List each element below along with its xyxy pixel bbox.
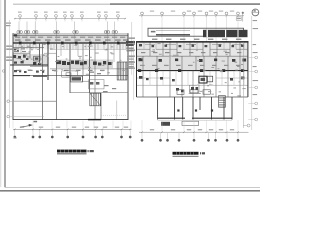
right plan: third band verticals	[142, 71, 144, 97]
right plan: window sill marks below top wall	[145, 43, 155, 45]
right plan: stair (rungs) right-centre	[219, 96, 226, 108]
right plan: first band interior verticals	[149, 43, 151, 57]
texture underlay left plan text band	[13, 36, 128, 43]
left plan: left row-marker bubble A	[7, 100, 10, 103]
left plan: room boxes y71-77	[62, 71, 78, 77]
right plan: dimension figures top	[150, 11, 154, 12]
right plan: bottom dimension line	[139, 131, 249, 133]
right plan: extension lines to bottom dimension	[141, 120, 143, 131]
right plan: mid band h-lines	[137, 77, 170, 79]
left plan: main top wall (dark)	[13, 42, 128, 44]
left plan: left row-marker bubble B	[7, 115, 10, 118]
left plan: stair block	[89, 93, 91, 106]
left plan: left margin small circle marker	[2, 70, 4, 72]
left plan: dense cluster left column	[14, 49, 16, 50]
right plan: grid leader lines	[141, 19, 143, 42]
right plan title text	[173, 152, 199, 155]
right plan: left margin annotation text block	[126, 41, 135, 43]
scattered annotation speckle right plan	[220, 70, 223, 73]
right plan: top dimension line	[139, 15, 244, 17]
right plan: bottom wall lower rooms	[158, 117, 232, 119]
right plan: first band secondary verticals	[143, 43, 145, 50]
right plan: elevator core boxes	[199, 76, 207, 83]
right plan: mid wall y70.5	[137, 70, 248, 72]
page border bottom line	[5, 186, 260, 188]
right plan: second band fixtures	[139, 58, 143, 61]
left plan: entry arrow bottom-left	[20, 125, 31, 127]
texture underlay left plan heavy fixture zone	[56, 60, 87, 68]
left plan: bottom wall	[13, 119, 128, 121]
page border left outer line	[0, 0, 2, 187]
left plan: label text band row 2	[15, 39, 21, 40]
right plan: bottom grid bubbles	[141, 139, 143, 141]
left plan: bath cluster upper-left	[13, 55, 17, 58]
right plan: h-wall y56	[137, 55, 248, 57]
leader dot top right	[242, 12, 244, 14]
bottom dark strip	[0, 190, 260, 192]
right plan: bath cluster mid	[190, 85, 199, 92]
left plan: M7 door label	[34, 121, 38, 123]
right plan title underline	[173, 155, 199, 157]
left plan: top wall light	[13, 33, 128, 35]
right plan: below-wall details	[161, 122, 170, 126]
right plan: lower rooms door dots	[177, 109, 179, 111]
left plan: utility box x34-40	[34, 56, 40, 61]
left plan: exterior side walls	[12, 33, 14, 120]
left plan: bottom grid bubbles	[14, 136, 16, 138]
left plan: dense blob upper-left of lower zone	[70, 76, 83, 83]
left plan: left vertical dimension line	[9, 20, 11, 128]
left plan: window/door blobs on main wall	[19, 42, 22, 45]
texture underlay right plan band2	[137, 57, 248, 70]
right plan: top wall (dark)	[136, 41, 249, 43]
right plan: canopy inner thick line	[156, 34, 190, 36]
left plan: text rows y48-52 left	[14, 48, 19, 49]
right plan: third band light partition lines	[149, 71, 151, 85]
right plan: exterior side walls	[136, 42, 138, 97]
right plan: canopy dark right section	[203, 30, 248, 37]
left plan: small rooms mid-lower	[89, 80, 104, 89]
texture underlay left plan bath zone	[13, 54, 48, 66]
left plan: second grid bubble row (pairs)	[17, 30, 20, 33]
right plan: text specks y52	[141, 52, 145, 53]
left plan: interior vertical walls	[20, 43, 22, 54]
leader label box top right	[236, 17, 241, 21]
left plan: label text band row 1	[15, 37, 20, 38]
right plan: canopy inner label	[151, 31, 156, 33]
faint dimension figures above left plan	[18, 12, 22, 13]
left plan: extension lines to bottom dimension	[12, 121, 14, 129]
left plan: bottom dimension line	[13, 128, 132, 130]
left plan: top wall dark	[13, 34, 128, 36]
right plan: canopy outline rect	[148, 28, 244, 36]
right plan: label row above top wall	[152, 39, 157, 40]
right plan: misc fixtures mid band	[139, 76, 142, 79]
scattered annotation speckle left plan	[50, 48, 53, 51]
right plan: right vertical dimension line	[242, 42, 244, 128]
right plan: dimension figures above bottom line	[150, 129, 154, 130]
detail-reference circle top right	[252, 9, 259, 16]
right plan: lower rooms verticals	[157, 97, 159, 120]
right plan: right margin row-grid bubbles	[255, 56, 258, 59]
right plan: second band verticals	[142, 56, 144, 70]
left plan: text row y69-70	[16, 70, 21, 71]
left plan: labels right-mid y84-92	[104, 85, 109, 86]
left plan: heavy fixture band y60-67	[33, 62, 36, 65]
right plan: far right vertical dim line	[251, 16, 253, 130]
right plan: h-wall y97	[137, 96, 248, 98]
left plan: small grid bubbles row (top)	[19, 15, 22, 18]
right plan: first band fixtures	[139, 44, 142, 46]
left plan: right-side gap annotations	[131, 22, 133, 75]
left plan: grid leader lines upper	[18, 22, 20, 31]
texture underlay right plan band1	[137, 43, 248, 56]
left plan: hatched shaft x117-127	[116, 62, 118, 80]
left plan: interior horizontal walls	[13, 46, 44, 48]
right plan: lower rooms top boxes	[177, 90, 184, 95]
right plan: h-line y49	[137, 48, 150, 50]
right plan: right margin annotation text	[253, 20, 258, 21]
texture underlay left plan stall band	[13, 44, 128, 50]
left plan: dimension figures above bottom line	[20, 127, 24, 128]
page border left inner line	[4, 0, 6, 187]
left plan: stall partition verticals below top wall	[15, 43, 17, 49]
page border top line	[13, 3, 110, 5]
left plan title underline	[57, 153, 87, 155]
left plan: top dimension line	[14, 18, 126, 20]
right plan title scale 1:50	[200, 152, 201, 154]
left plan title text	[57, 150, 87, 153]
left plan title scale 1:100	[88, 150, 89, 152]
left plan: left edge annotation text	[6, 46, 12, 47]
right plan: small grid bubbles row (top)	[141, 12, 144, 15]
